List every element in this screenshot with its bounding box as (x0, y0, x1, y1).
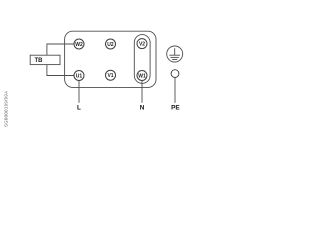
terminal W1 (137, 71, 147, 81)
protective earth symbol circle (167, 46, 183, 62)
svg-text:W2: W2 (75, 42, 83, 48)
svg-text:PE: PE (171, 104, 180, 111)
terminal W2 (74, 39, 84, 49)
PE terminal small circle (171, 70, 179, 78)
terminal V1 (106, 70, 116, 80)
svg-text:U1: U1 (76, 73, 83, 79)
svg-text:V2: V2 (139, 41, 145, 47)
terminal V2 (137, 39, 147, 49)
terminal U2 (106, 39, 116, 49)
svg-text:TB: TB (35, 58, 44, 64)
svg-text:N: N (140, 104, 145, 111)
terminal box TB (30, 55, 60, 64)
wire from TB top to terminal W2 (47, 44, 74, 56)
wire PE down (174, 78, 176, 103)
wire L from U1 down (78, 80, 80, 102)
svg-text:SG0000199/99A: SG0000199/99A (4, 91, 9, 127)
svg-text:U2: U2 (107, 42, 114, 48)
terminal board main box (65, 31, 156, 87)
svg-text:V1: V1 (107, 73, 113, 79)
wire N from W1 down (141, 80, 143, 103)
link bar stadium around V2 and W1 (134, 35, 150, 84)
svg-text:L: L (77, 104, 81, 111)
svg-text:W1: W1 (138, 73, 146, 79)
terminal U1 (74, 71, 84, 81)
wire from TB bottom to terminal U1 (47, 64, 74, 76)
